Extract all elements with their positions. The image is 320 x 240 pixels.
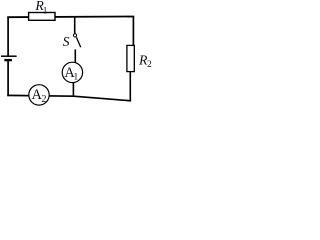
wire R2 to bottom xyxy=(129,71,131,102)
ammeter A1 xyxy=(62,62,82,82)
battery positive plate xyxy=(1,55,17,57)
svg-text:1: 1 xyxy=(74,72,79,82)
svg-text:2: 2 xyxy=(42,94,47,105)
wire switch branch upper xyxy=(74,17,76,35)
wire left lower xyxy=(7,61,9,96)
wire top xyxy=(7,16,134,19)
wire switch to A1 xyxy=(74,49,76,66)
battery negative plate xyxy=(4,59,12,61)
switch S blade xyxy=(76,37,80,47)
resistor R1 xyxy=(29,13,55,21)
svg-text:2: 2 xyxy=(147,60,152,70)
wire left upper xyxy=(7,17,9,57)
switch S pivot xyxy=(73,34,76,37)
ammeter A2 xyxy=(29,85,49,105)
svg-text:1: 1 xyxy=(43,6,48,16)
wire right xyxy=(132,17,134,47)
wire A1 to bottom xyxy=(72,78,74,97)
svg-text:S: S xyxy=(63,34,70,49)
wire bottom xyxy=(7,95,131,100)
resistor R2 xyxy=(127,45,134,71)
